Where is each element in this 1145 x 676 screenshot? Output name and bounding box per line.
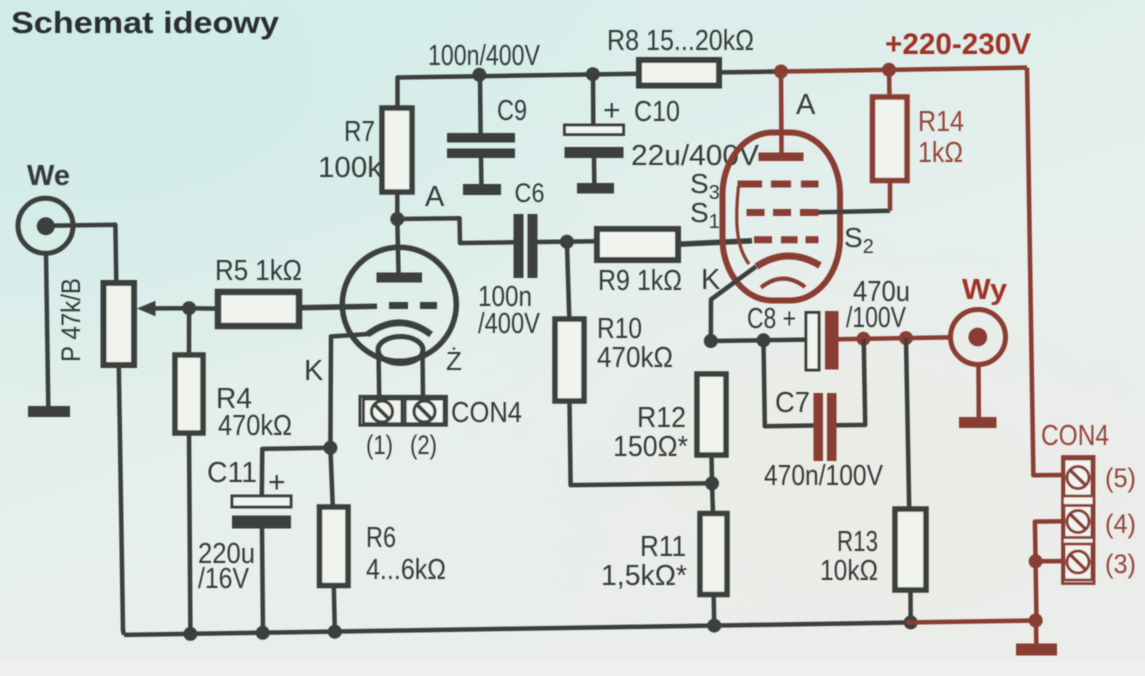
wire: C7 right branch	[837, 339, 866, 426]
wire: Wy to ground	[976, 364, 981, 417]
wire: rail end to ground bar	[1034, 621, 1039, 645]
wire: pot bottom to bottom rail	[119, 365, 124, 635]
node: pin3/pin4 tie junction	[1029, 554, 1043, 568]
resistor R5	[218, 292, 299, 326]
tube V2 pentode envelope	[723, 133, 841, 301]
node: R13 junction on output line	[899, 331, 913, 345]
svg-text:R5 1kΩ: R5 1kΩ	[215, 255, 302, 287]
wire: cathode output line black section	[711, 340, 806, 341]
wire: We to pot top	[46, 225, 117, 283]
wire: S2 grid to R14 bottom	[819, 211, 891, 213]
CON4 screw (3)	[1067, 551, 1089, 573]
wire: V2 anode lead to rail	[779, 72, 784, 154]
capacitor C8 electrolytic	[806, 313, 819, 371]
wire: top rail +220V maroon section	[781, 68, 1027, 72]
svg-text:(2): (2)	[410, 430, 437, 460]
connector CON4 heater block	[360, 396, 446, 425]
svg-text:+: +	[603, 94, 621, 127]
svg-text:R14: R14	[918, 106, 964, 138]
svg-text:We: We	[27, 160, 70, 192]
wire: junction to C11	[262, 448, 331, 496]
wire: heater lead 1	[376, 350, 381, 396]
svg-text:C11: C11	[207, 457, 257, 489]
wire: bottom rail maroon tail	[906, 621, 1036, 623]
node: R6 on bottom rail	[328, 625, 342, 639]
svg-text:K: K	[701, 264, 721, 296]
node: rail end junction	[1029, 614, 1043, 628]
ground: C9 ground bar	[463, 184, 501, 195]
wire: V2 cathode to output node	[711, 267, 756, 342]
resistor R11	[700, 514, 727, 595]
svg-text:/400V: /400V	[478, 308, 541, 340]
svg-text:C6: C6	[515, 178, 545, 208]
svg-text:C9: C9	[497, 95, 527, 127]
wire: C10 top lead	[591, 74, 596, 125]
node: R11 on bottom rail	[707, 619, 721, 633]
wire: We jack to ground	[46, 253, 48, 406]
V2 grid row S1 dashes	[754, 236, 772, 243]
wire: C6 to R9	[538, 239, 598, 244]
wire: node to R11 top	[712, 483, 713, 513]
svg-text:R11: R11	[640, 531, 686, 563]
resistor R8	[639, 60, 719, 86]
svg-text:(1): (1)	[366, 430, 393, 460]
svg-text:R8 15...20kΩ: R8 15...20kΩ	[607, 25, 754, 57]
capacitor C9	[447, 133, 515, 143]
wire: CON4 pin4 to pin3 tie	[1035, 521, 1063, 561]
resistor R9	[597, 229, 678, 260]
CON4 screw terminal 1	[372, 401, 393, 422]
V1 cathode arc	[368, 323, 432, 335]
V1 grid dashes	[389, 302, 408, 309]
svg-text:150Ω*: 150Ω*	[613, 431, 688, 463]
output jack Wy	[951, 310, 1006, 365]
svg-text:C8 +: C8 +	[747, 303, 796, 335]
svg-text:R13: R13	[837, 526, 878, 558]
capacitor C10 electrolytic	[565, 125, 624, 135]
resistor R14	[873, 97, 908, 181]
wire: right edge +220V drop to CON4 pin5	[1027, 68, 1063, 476]
node: R14 top / +220V on top rail	[882, 63, 896, 77]
svg-text:K: K	[304, 355, 324, 387]
wire: C10 bottom lead	[592, 158, 597, 183]
connector CON4 output block	[1063, 457, 1095, 584]
wire: top supply rail black section (R7 top to R8 left)	[398, 74, 640, 108]
wire: C11 bottom to rail	[262, 529, 263, 634]
resistor R10	[555, 319, 584, 401]
svg-text:CON4: CON4	[1041, 420, 1109, 452]
svg-text:CON4: CON4	[451, 397, 522, 429]
node: junction C10/R8-left on top rail	[586, 67, 600, 81]
capacitor C7	[814, 393, 824, 461]
svg-text:(5): (5)	[1105, 463, 1136, 493]
CON4 screw (4)	[1067, 511, 1089, 533]
wire: output line maroon section to Wy	[839, 337, 950, 339]
wire: V1 cathode to K node	[330, 334, 369, 448]
CON4 screw (5)	[1067, 467, 1089, 489]
svg-text:Schemat ideowy: Schemat ideowy	[11, 5, 280, 40]
wire: C9 bottom lead	[479, 158, 484, 184]
wire: node A to C6	[397, 218, 513, 243]
svg-text:Ż: Ż	[446, 346, 462, 376]
svg-text:(4): (4)	[1105, 509, 1136, 539]
svg-text:C7: C7	[775, 387, 810, 419]
svg-text:R10: R10	[597, 313, 642, 345]
svg-text:/100V: /100V	[846, 302, 907, 334]
node: C11 on bottom rail	[256, 626, 270, 640]
svg-text:R6: R6	[366, 522, 396, 554]
resistor R4	[175, 355, 203, 433]
svg-text:A: A	[425, 181, 445, 213]
svg-text:P 47k/B: P 47k/B	[56, 278, 86, 362]
wire: R9 to pentode grid	[678, 241, 752, 245]
wire: R12 bottom to node	[709, 455, 714, 483]
node: K junction on output line	[704, 334, 718, 348]
wire: V1 anode lead	[397, 219, 398, 273]
node: R13 on bottom rail	[904, 615, 918, 629]
wire: R11 bottom to bottom rail	[711, 595, 716, 626]
resistor R12	[697, 374, 726, 455]
node A junction dot	[390, 212, 404, 226]
svg-text:(3): (3)	[1105, 549, 1136, 579]
V2 suppressor tie line	[737, 186, 749, 264]
ground: Wy ground bar	[959, 417, 997, 428]
V2 inner arc	[761, 279, 805, 288]
potentiometer P 47k/B	[104, 283, 135, 365]
svg-text:R9 1kΩ: R9 1kΩ	[598, 265, 682, 297]
wire: R4 bottom to bottom rail	[189, 433, 190, 634]
wire: junction to R10 top	[567, 242, 569, 319]
wire: heater lead 2	[420, 350, 425, 396]
node: C7 right junction	[857, 332, 871, 346]
capacitor C6	[514, 214, 524, 278]
wire: R14 bottom lead	[888, 181, 893, 211]
node: C6/R9/R10 junction	[560, 235, 574, 249]
pot wiper arrow	[152, 306, 190, 311]
svg-text:4...6kΩ: 4...6kΩ	[366, 554, 446, 586]
node: pentode anode on top rail	[774, 65, 788, 79]
tube V1 triode envelope	[342, 247, 456, 361]
svg-text:1kΩ: 1kΩ	[918, 137, 963, 169]
svg-text:+220-230V: +220-230V	[885, 28, 1031, 61]
node: R4 on bottom rail	[183, 627, 197, 641]
svg-text:470kΩ: 470kΩ	[597, 342, 673, 374]
svg-text:100n/400V: 100n/400V	[428, 40, 541, 72]
node: triode cathode / C11 / R6 junction	[323, 441, 337, 455]
svg-text:470n/100V: 470n/100V	[764, 460, 884, 492]
input jack We	[18, 198, 73, 253]
V1 anode bar	[377, 273, 423, 283]
svg-text:+: +	[268, 466, 286, 499]
wire: R5 to triode grid	[299, 306, 377, 308]
wire: R14 top lead	[887, 70, 892, 97]
ground: We ground bar	[28, 406, 70, 417]
svg-text:Wy: Wy	[962, 274, 1007, 306]
ground: C10 ground bar	[577, 183, 614, 194]
wire: junction to R5	[189, 306, 218, 311]
wire: R7 bottom to node A	[395, 192, 400, 219]
svg-text:R12: R12	[637, 402, 686, 434]
svg-text:A: A	[796, 89, 816, 121]
wire: R6 bottom to rail	[334, 586, 335, 632]
resistor R13	[895, 509, 926, 590]
V2 cathode arc	[757, 256, 821, 267]
node: wiper/R5/R4 junction	[182, 301, 196, 315]
svg-text:1,5kΩ*: 1,5kΩ*	[601, 560, 687, 592]
svg-text:10kΩ: 10kΩ	[820, 555, 878, 587]
V2 anode bar	[759, 153, 804, 162]
resistor R7	[382, 108, 412, 192]
capacitor C11 electrolytic	[232, 496, 291, 507]
V1 heater filament oval	[378, 337, 423, 364]
svg-text:100k: 100k	[318, 152, 383, 184]
node: C7 branch junction	[757, 333, 771, 347]
wire: R13 bottom to bottom rail	[908, 590, 913, 622]
svg-text:/16V: /16V	[198, 563, 250, 595]
svg-text:C10: C10	[634, 96, 680, 128]
wire: junction to R4 top	[187, 308, 192, 355]
CON4 screw terminal 2	[414, 401, 435, 422]
wire: junction to R6 top	[330, 448, 332, 507]
wire: top rail R8 to pentode anode node	[719, 69, 781, 74]
V2 grid row S3 dashes	[738, 181, 763, 188]
wire: tie down to bottom rail	[1033, 561, 1038, 620]
wire: R10 bottom to R12/R11 node	[570, 401, 713, 485]
ground: bottom right ground bar	[1016, 644, 1057, 656]
svg-text:R7: R7	[344, 116, 375, 148]
wire: bottom ground rail	[124, 623, 906, 635]
node: junction C9 on top rail	[472, 68, 486, 82]
wire: C9 top lead	[478, 75, 483, 133]
V2 grid row S2 dashes	[747, 209, 765, 216]
svg-text:470kΩ: 470kΩ	[218, 410, 292, 442]
node: R12/R11 junction	[705, 476, 719, 490]
resistor R6	[320, 507, 349, 586]
wire: output node to R13 top	[906, 338, 909, 509]
wire: C7 left branch	[764, 340, 814, 426]
